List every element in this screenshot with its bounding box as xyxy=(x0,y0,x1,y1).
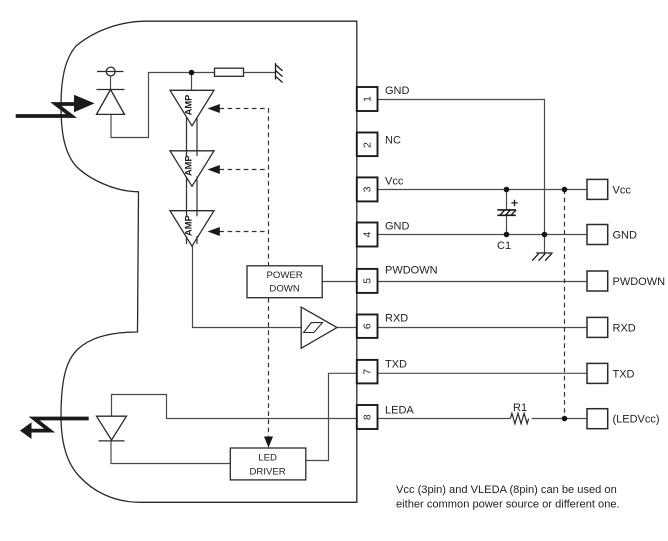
svg-text:TXD: TXD xyxy=(385,359,407,371)
svg-text:PWDOWN: PWDOWN xyxy=(613,276,666,288)
svg-text:2: 2 xyxy=(363,142,374,148)
svg-text:Vcc: Vcc xyxy=(385,175,404,187)
svg-text:POWER: POWER xyxy=(266,270,302,281)
svg-text:3: 3 xyxy=(363,186,374,192)
svg-text:8: 8 xyxy=(363,414,374,420)
svg-text:5: 5 xyxy=(363,278,374,284)
svg-text:1: 1 xyxy=(363,96,374,102)
svg-text:AMP: AMP xyxy=(183,215,193,236)
svg-text:DRIVER: DRIVER xyxy=(249,466,285,477)
svg-text:4: 4 xyxy=(363,231,374,237)
svg-text:AMP: AMP xyxy=(183,155,193,176)
svg-text:Vcc: Vcc xyxy=(613,184,632,196)
svg-text:GND: GND xyxy=(385,85,410,97)
svg-text:AMP: AMP xyxy=(183,95,193,116)
svg-text:PWDOWN: PWDOWN xyxy=(385,265,438,277)
svg-text:6: 6 xyxy=(363,323,374,329)
svg-text:LEDA: LEDA xyxy=(385,405,414,417)
svg-text:NC: NC xyxy=(385,135,401,147)
svg-text:RXD: RXD xyxy=(613,322,636,334)
svg-text:either common power source or: either common power source or different … xyxy=(396,499,620,511)
svg-text:GND: GND xyxy=(613,230,638,242)
svg-text:TXD: TXD xyxy=(613,368,635,380)
svg-text:Vcc (3pin) and VLEDA (8pin) ca: Vcc (3pin) and VLEDA (8pin) can be used … xyxy=(396,484,617,496)
svg-text:C1: C1 xyxy=(497,240,511,252)
svg-text:GND: GND xyxy=(385,221,410,233)
svg-text:7: 7 xyxy=(363,369,374,375)
svg-text:DOWN: DOWN xyxy=(269,284,299,295)
svg-text:LED: LED xyxy=(258,452,277,463)
svg-text:RXD: RXD xyxy=(385,313,408,325)
svg-text:R1: R1 xyxy=(513,402,527,414)
svg-text:(LEDVcc): (LEDVcc) xyxy=(613,414,660,426)
